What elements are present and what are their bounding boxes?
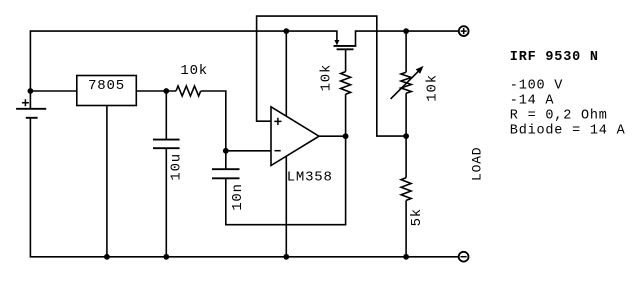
transistor Q1 drain lead and top rail right segment	[356, 31, 459, 46]
terminal negative output	[459, 252, 469, 262]
svg-text:IRF 9530 N: IRF 9530 N	[510, 50, 599, 65]
svg-text:-100 V: -100 V	[510, 78, 564, 93]
node potentiometer rail junction	[403, 28, 409, 34]
resistor R3 10k gate zigzag	[341, 72, 351, 95]
svg-text:10k: 10k	[319, 64, 335, 92]
transistor Q1 channel plate	[334, 45, 357, 47]
potentiometer R2 wiper arrow	[391, 70, 420, 99]
node battery junction	[28, 88, 34, 94]
svg-text:-14 A: -14 A	[510, 93, 555, 108]
terminal positive output	[459, 26, 469, 36]
transistor Q1 gate plate	[337, 48, 354, 50]
battery B1 positive plate	[16, 108, 46, 110]
wire 7805 output to R1	[136, 90, 176, 92]
resistor R4 5k bottom lead	[405, 200, 407, 256]
node op-amp output junction	[343, 133, 349, 139]
svg-text:R = 0,2 Ohm: R = 0,2 Ohm	[510, 108, 608, 123]
node inverting input junction	[223, 148, 229, 154]
wire op-amp V+ supply lead	[285, 31, 287, 116]
svg-text:Bdiode = 14 A: Bdiode = 14 A	[510, 123, 626, 138]
svg-text:10k: 10k	[425, 74, 441, 102]
svg-text:LM358: LM358	[287, 169, 333, 185]
svg-text:10u: 10u	[169, 153, 185, 181]
wire noninverting input loop to node A	[257, 16, 407, 136]
wire feedback from output node down and left to 10n capacitor	[226, 136, 346, 225]
wire op-amp V- supply lead	[285, 156, 287, 257]
node V- rail junction	[283, 254, 289, 260]
wire +V rail (battery plus lead, top rail left segment to MOSFET source)	[30, 31, 337, 109]
wire potentiometer bottom lead to node A	[405, 93, 407, 136]
node 5k rail junction	[403, 254, 409, 260]
wire battery to 7805 input	[30, 90, 76, 92]
op-amp plus input symbol	[274, 118, 281, 125]
svg-text:10k: 10k	[180, 63, 208, 79]
svg-text:7805: 7805	[88, 78, 125, 94]
wire battery minus lead and bottom rail	[30, 118, 458, 257]
op-amp minus input symbol	[275, 150, 281, 152]
wire R1 to inverting input node	[201, 91, 226, 151]
transistor Q1 IRF9530 source arrow	[334, 40, 339, 45]
wire op-amp output	[319, 135, 346, 137]
capacitor C2 10n plates	[212, 169, 240, 178]
node 7805 output junction	[163, 88, 169, 94]
resistor R4 5k top lead	[405, 136, 407, 178]
wire potentiometer top lead	[405, 31, 407, 72]
wire 10u top lead	[165, 91, 167, 140]
node 7805 ground rail junction	[104, 254, 110, 260]
resistor R4 5k zigzag	[401, 178, 411, 201]
op-amp U1 LM358 triangle	[271, 107, 319, 166]
node 10u rail junction	[163, 254, 169, 260]
node A divider junction	[403, 133, 409, 139]
svg-text:LOAD: LOAD	[469, 147, 484, 181]
wire 7805 ground lead	[106, 106, 108, 257]
node V+ rail junction	[283, 28, 289, 34]
wire inverting input	[226, 150, 271, 152]
resistor R1 10k zigzag	[176, 86, 201, 96]
transistor Q1 gate lead	[345, 49, 347, 71]
regulator U2 7805 box	[77, 76, 137, 106]
wire 10u bottom lead	[165, 148, 167, 257]
battery plus symbol	[22, 99, 29, 106]
wire 10n top lead to inverting input node	[225, 151, 227, 169]
capacitor C1 10u plates	[153, 140, 180, 149]
svg-text:5k: 5k	[409, 208, 425, 226]
battery B1 negative plate	[26, 117, 38, 119]
svg-text:10n: 10n	[230, 183, 246, 211]
potentiometer R2 10k zigzag	[401, 72, 411, 93]
wire gate resistor to op-amp output	[345, 94, 347, 136]
